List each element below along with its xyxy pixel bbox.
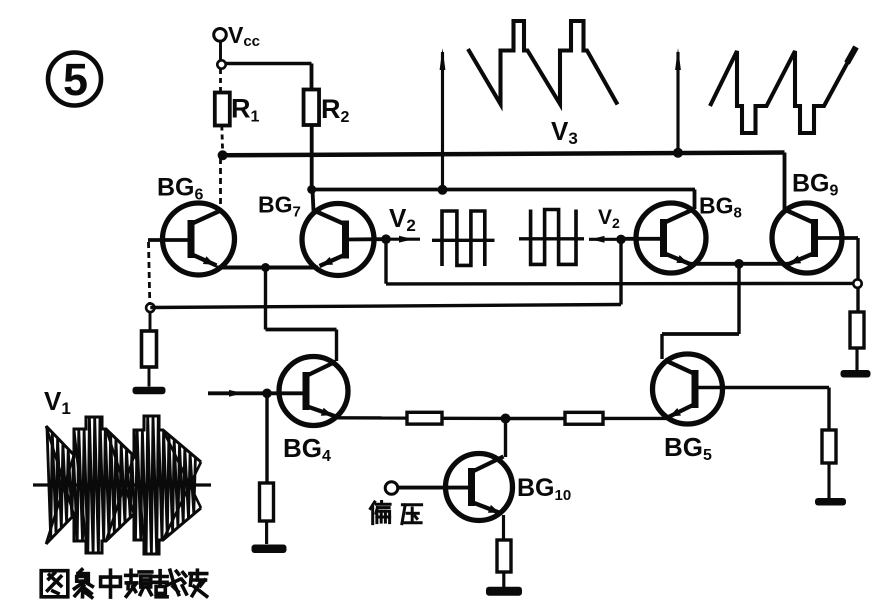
svg-text:5: 5 [63, 54, 88, 105]
